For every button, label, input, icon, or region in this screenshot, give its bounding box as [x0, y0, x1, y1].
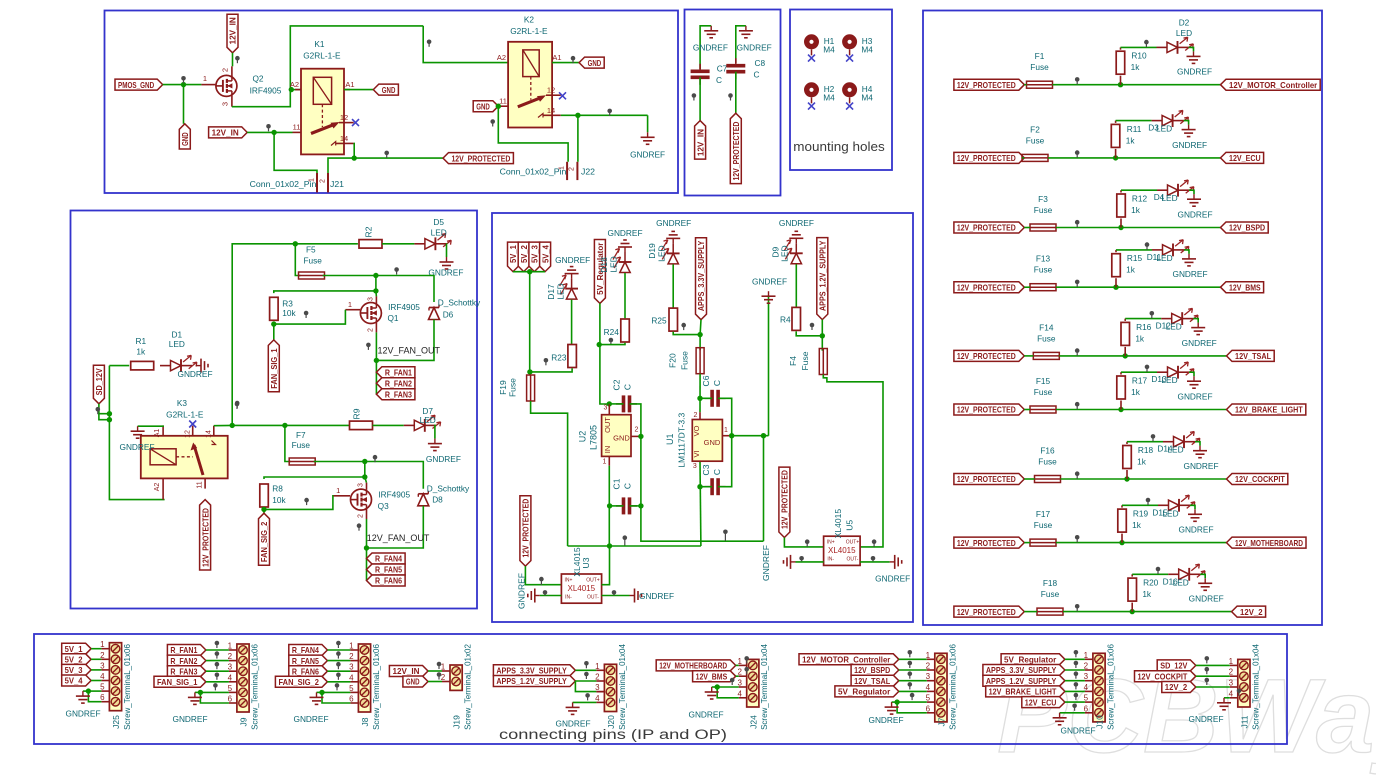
svg-text:OUT-: OUT-: [587, 595, 599, 601]
label 12V_MOTOR_Controller: [1221, 79, 1321, 90]
svg-text:C: C: [623, 384, 633, 390]
wire J25 pin4: [91, 680, 101, 682]
wire APPS33 to F20: [699, 320, 702, 351]
svg-text:Screw_TerminaL_01x06: Screw_TerminaL_01x06: [948, 644, 957, 730]
label 12V_PROTECTED K3: [200, 500, 211, 570]
wire R19 top to LED: [1122, 504, 1158, 506]
wire D5 to gnd: [445, 244, 447, 257]
svg-text:APPS_3.3V_SUPPLY: APPS_3.3V_SUPPLY: [496, 666, 567, 676]
gray marker J24 pin2: [744, 667, 749, 674]
wire D4 to ground: [1189, 190, 1194, 194]
svg-text:5: 5: [926, 694, 931, 703]
wire F1 to output: [1053, 84, 1221, 86]
fuse F17: [1030, 509, 1056, 546]
svg-text:3: 3: [368, 297, 375, 301]
svg-text:SD_12V: SD_12V: [1160, 661, 1187, 671]
wire R8 top rail: [264, 477, 367, 483]
gray marker R23: [544, 358, 549, 365]
svg-text:1: 1: [1229, 657, 1234, 666]
svg-text:C2: C2: [612, 379, 622, 390]
ground GNDREF U3 right: [630, 589, 675, 603]
wire U2 pin1 down: [608, 466, 610, 546]
svg-text:5: 5: [349, 684, 354, 693]
text GNDREF J11: [1188, 714, 1223, 724]
wire F7 drop: [285, 425, 291, 461]
resistor R17 1k: [1117, 372, 1148, 409]
ground GNDREF D5: [428, 257, 463, 277]
wire D13 to ground: [1189, 372, 1194, 376]
pin 1 J24: [737, 657, 746, 666]
svg-text:APPS_1.2V_SUPPLY: APPS_1.2V_SUPPLY: [986, 676, 1057, 686]
svg-text:GNDREF: GNDREF: [1188, 714, 1223, 724]
svg-text:12: 12: [185, 430, 192, 438]
gray marker F18 top: [1156, 567, 1161, 574]
gray marker J7 pin1: [908, 650, 913, 657]
svg-text:12V_IN: 12V_IN: [228, 17, 238, 44]
wire F16 left: [1024, 478, 1034, 480]
svg-text:4: 4: [595, 694, 600, 703]
svg-text:1: 1: [100, 640, 105, 649]
label 12V_PROTECTED row F1: [954, 79, 1024, 90]
junction R12: [1118, 225, 1123, 230]
gray marker F1 wire: [1075, 77, 1080, 84]
fuse F1: [1027, 51, 1053, 88]
svg-text:APPS_1.2V_SUPPLY: APPS_1.2V_SUPPLY: [496, 676, 567, 686]
wire F19 down: [531, 401, 568, 546]
svg-text:R15: R15: [1127, 253, 1143, 263]
svg-text:2: 2: [349, 652, 354, 661]
gray marker U3 inminus: [543, 590, 548, 595]
gray marker F3 wire: [1075, 220, 1080, 227]
gray marker F16 top: [1151, 434, 1156, 441]
gray marker J24 pin1: [744, 656, 749, 663]
label 12V_PROTECTED row F18: [954, 606, 1024, 617]
text GNDREF J7: [868, 715, 903, 725]
svg-text:IN-: IN-: [827, 557, 834, 563]
wire C7 bottom: [699, 77, 701, 120]
label 12V_COCKPIT: [1227, 474, 1288, 485]
svg-text:R_FAN3: R_FAN3: [385, 389, 412, 399]
svg-text:Fuse: Fuse: [1034, 387, 1053, 397]
svg-text:12: 12: [340, 113, 348, 122]
resistor R15 1k: [1112, 250, 1143, 287]
label 12V_PROTECTED U5: [779, 467, 790, 537]
svg-text:L7805: L7805: [589, 425, 599, 450]
svg-text:2: 2: [320, 179, 327, 183]
wire K3 A1 to gnd: [138, 424, 164, 427]
svg-text:GNDREF: GNDREF: [1183, 461, 1218, 471]
svg-text:12V_PROTECTED: 12V_PROTECTED: [780, 470, 790, 529]
label 5V_Regulator: [594, 240, 605, 304]
gray marker U3 in: [539, 577, 544, 585]
svg-text:12V_PROTECTED: 12V_PROTECTED: [957, 80, 1016, 90]
svg-text:12V_BMS: 12V_BMS: [696, 671, 728, 681]
svg-text:LED: LED: [609, 256, 619, 273]
wire F16 to output: [1061, 478, 1227, 480]
pin 2 J7: [926, 662, 935, 671]
wire to GND label: [183, 85, 185, 124]
svg-text:G2RL-1-E: G2RL-1-E: [303, 51, 341, 61]
svg-text:GNDREF: GNDREF: [693, 43, 728, 53]
LED D11: [1147, 240, 1189, 263]
wire R25 bottom: [673, 332, 700, 335]
svg-text:5: 5: [1084, 694, 1089, 703]
gray marker J10 pin3: [1074, 671, 1079, 678]
wire F17 left: [1024, 542, 1030, 544]
wire J8 pin3: [327, 670, 350, 672]
svg-text:D8: D8: [432, 495, 443, 505]
label 12V_IN box B: [695, 121, 706, 160]
svg-text:A2: A2: [154, 483, 161, 492]
svg-text:1k: 1k: [1126, 265, 1136, 275]
LED D12: [1156, 308, 1198, 331]
gray marker J10 pin5: [1074, 693, 1079, 700]
ground GNDREF F3 row: [1177, 194, 1212, 219]
wire F20 down to U1: [699, 374, 701, 413]
LED D7: [404, 406, 441, 432]
label 12V_PROTECTED box A: [443, 153, 513, 164]
transistor Q1 IRF4905: [345, 296, 420, 332]
svg-text:1: 1: [348, 300, 352, 309]
svg-text:R19: R19: [1133, 509, 1149, 519]
junction J8 gnd: [319, 690, 324, 695]
pin 3 J10: [1084, 672, 1093, 681]
fuse F5: [299, 244, 325, 279]
svg-text:Fuse: Fuse: [1038, 457, 1057, 467]
label FAN_SIG_1 at J9: [154, 676, 206, 687]
svg-text:Screw_TerminaL_01x06: Screw_TerminaL_01x06: [250, 644, 259, 730]
label SD_12V: [93, 365, 104, 404]
wire to FAN_SIG_1: [273, 324, 275, 340]
label 12V_BRAKE_LIGHT: [1227, 404, 1306, 415]
wire R3 top rail: [274, 291, 377, 297]
ground GNDREF J7: [885, 702, 899, 714]
gray marker PMOS_GND: [181, 76, 186, 83]
svg-text:LED: LED: [556, 283, 566, 300]
label R_FAN2 at J9: [167, 655, 206, 666]
wire K2 pin14 right: [561, 114, 648, 116]
text ref J24: [748, 644, 769, 730]
resistor R1 1k: [131, 336, 154, 370]
wire J11 gnd first: [1224, 697, 1230, 699]
label 12V_PROTECTED row F15: [954, 404, 1024, 415]
svg-text:3: 3: [1229, 679, 1234, 688]
converter U5 XL4015: [824, 509, 861, 566]
svg-text:2: 2: [1084, 662, 1089, 671]
wire gnd symbol up: [768, 297, 770, 436]
wire J11 pin3: [1196, 686, 1230, 688]
label R_FAN3 at J9: [167, 666, 206, 677]
gray marker R8: [304, 498, 309, 505]
label R_FAN4 at J8: [289, 645, 328, 656]
resistor R4: [780, 307, 801, 330]
svg-text:12V_2: 12V_2: [1165, 682, 1188, 692]
svg-text:F20: F20: [667, 353, 677, 368]
wire F14 left: [1024, 355, 1033, 357]
svg-text:A1: A1: [552, 53, 561, 62]
wire R24 bottom: [599, 343, 625, 345]
svg-text:D_Schottky: D_Schottky: [438, 298, 481, 308]
relay K3 G2RL-1-E: [141, 398, 228, 500]
svg-text:OUT+: OUT+: [586, 578, 600, 584]
svg-text:C1: C1: [612, 478, 622, 489]
svg-text:GNDREF: GNDREF: [1177, 67, 1212, 77]
label 12V_PROTECTED row F2: [954, 152, 1024, 163]
ground GNDREF D7: [426, 439, 461, 464]
svg-text:IRF4905: IRF4905: [250, 86, 282, 96]
connector J25 screw terminal strip: [109, 643, 121, 711]
pin 1 Q2: [201, 74, 215, 85]
svg-text:1: 1: [724, 427, 728, 434]
svg-text:5V_1: 5V_1: [508, 245, 518, 263]
LED D1: [160, 329, 197, 372]
svg-text:Fuse: Fuse: [1034, 265, 1053, 275]
wire R16 top to LED: [1125, 318, 1161, 320]
wire J8 pin4: [327, 681, 350, 683]
wire pin14 to ground: [647, 115, 649, 132]
svg-text:1: 1: [203, 74, 207, 83]
label 12V_IN top: [227, 14, 238, 53]
border box E (fan drivers section): [71, 211, 478, 609]
wire C1 right: [630, 505, 641, 507]
transistor Q3 IRF4905: [334, 483, 411, 519]
capacitor C3: [701, 464, 726, 495]
svg-text:GNDREF: GNDREF: [761, 545, 771, 581]
svg-text:LED: LED: [1176, 28, 1192, 38]
svg-text:12V_BSPD: 12V_BSPD: [854, 665, 890, 675]
gray marker J7 pin4: [908, 682, 913, 689]
junction U1 pin1 caps: [729, 433, 734, 438]
label APPS_1.2V_SUPPLY: [817, 238, 828, 320]
LED D15: [1152, 495, 1194, 518]
svg-text:3: 3: [926, 672, 931, 681]
watermark: [997, 658, 1376, 775]
svg-text:5V_2: 5V_2: [519, 245, 529, 263]
gray marker F5 node: [394, 267, 399, 274]
svg-text:1: 1: [737, 657, 742, 666]
svg-text:Screw_TerminaL_01x06: Screw_TerminaL_01x06: [372, 644, 381, 730]
gray marker F16 wire: [1075, 471, 1080, 478]
gray marker J10 pin4: [1074, 682, 1079, 689]
resistor R20 1k: [1128, 574, 1159, 611]
text GNDREF J8: [293, 714, 328, 724]
wire K1 A1 to GND: [344, 89, 373, 91]
wire junction down to F5: [295, 244, 300, 276]
LED D3: [1148, 110, 1188, 133]
svg-text:SD_12V: SD_12V: [94, 368, 104, 395]
ground GNDREF box A: [630, 132, 665, 159]
svg-text:R18: R18: [1138, 445, 1154, 455]
gray marker J11 pin2: [1205, 667, 1210, 674]
svg-text:D2: D2: [1179, 18, 1190, 28]
junction U1 pin1: [761, 433, 766, 438]
label R_FAN5: [367, 564, 406, 575]
gray marker J10 gnd: [1072, 704, 1077, 711]
svg-text:GND: GND: [704, 438, 721, 447]
svg-text:LED: LED: [780, 245, 790, 262]
svg-text:1k: 1k: [136, 347, 146, 357]
svg-text:J10: J10: [1095, 715, 1105, 729]
wire J25 pin2: [91, 658, 101, 660]
svg-text:J8: J8: [360, 717, 370, 726]
wire R9 to D7: [373, 424, 404, 426]
gray marker J11 pin1: [1205, 656, 1210, 663]
svg-text:1k: 1k: [1126, 135, 1136, 145]
wire U5 in- gnd: [796, 561, 824, 563]
label R_FAN2: [376, 378, 415, 389]
label 12V_MOTHERBOARD at J24: [656, 660, 736, 671]
gray marker F17 top: [1146, 498, 1151, 505]
label R_FAN6: [367, 575, 406, 586]
svg-text:J24: J24: [748, 715, 758, 729]
svg-text:5V_3: 5V_3: [530, 245, 540, 263]
svg-text:12V_COCKPIT: 12V_COCKPIT: [1235, 474, 1285, 484]
svg-text:2: 2: [1229, 668, 1234, 677]
gray marker J7 pin2: [908, 661, 913, 668]
svg-text:5V_4: 5V_4: [540, 245, 550, 263]
junction K2 pin11: [496, 104, 501, 109]
wire F15 left: [1024, 409, 1030, 411]
svg-text:Q1: Q1: [387, 313, 398, 323]
pin 1 J8: [349, 642, 358, 651]
svg-text:C8: C8: [754, 58, 765, 68]
LED D16: [1163, 564, 1205, 587]
diode D_Schottky D6: [429, 298, 482, 320]
pin 1 J11: [1229, 657, 1238, 666]
gray marker J7 pin3: [908, 671, 913, 678]
ground GNDREF F13 row: [1172, 254, 1207, 279]
svg-text:2: 2: [635, 427, 639, 434]
svg-text:2: 2: [569, 167, 576, 171]
svg-text:IRF4905: IRF4905: [388, 302, 420, 312]
wire J25 gnd first: [88, 690, 101, 692]
gray marker J9 pin3: [215, 662, 220, 669]
gray marker F14 wire: [1075, 348, 1080, 355]
pin 6 J9: [228, 695, 237, 704]
svg-text:C3: C3: [701, 464, 711, 475]
wire K1 pin14 down: [353, 143, 356, 158]
label 12V_IN at J19: [389, 666, 428, 677]
svg-text:12V_PROTECTED: 12V_PROTECTED: [451, 153, 510, 163]
gray marker J10 pin2: [1074, 661, 1079, 668]
gray marker C7: [692, 93, 697, 100]
svg-text:R_FAN3: R_FAN3: [170, 666, 197, 676]
svg-text:Fuse: Fuse: [1041, 589, 1060, 599]
wire pin1 gnd down: [763, 436, 765, 542]
svg-text:R1: R1: [135, 336, 146, 346]
pin 4 J8: [349, 673, 358, 682]
junction R23 bottom: [527, 369, 532, 374]
svg-text:Conn_01x02_Pin: Conn_01x02_Pin: [250, 179, 317, 189]
gray marker J19 pin2: [437, 672, 442, 679]
junction J9 gnd: [198, 690, 203, 695]
svg-text:1: 1: [1084, 651, 1089, 660]
wire U1 VI down: [699, 461, 702, 546]
svg-text:2: 2: [221, 68, 230, 72]
wire J10 pin2: [1065, 669, 1085, 671]
fuse F16: [1035, 446, 1061, 483]
pin 4 J10: [1084, 683, 1093, 692]
svg-text:6: 6: [349, 695, 354, 704]
text GNDREF J9: [172, 714, 207, 724]
label 12V_PROTECTED row F14: [954, 350, 1024, 361]
svg-text:C7: C7: [717, 64, 728, 74]
svg-text:C: C: [623, 483, 633, 489]
wire J7 pin1: [899, 658, 927, 660]
svg-text:OUT+: OUT+: [846, 540, 860, 546]
svg-text:1k: 1k: [1131, 62, 1141, 72]
svg-text:Fuse: Fuse: [292, 440, 311, 450]
pin 6 J7: [926, 704, 935, 713]
svg-text:LED: LED: [1166, 322, 1182, 332]
svg-text:R_FAN4: R_FAN4: [292, 645, 319, 655]
ground GNDREF F15 row: [1177, 376, 1212, 401]
svg-text:12V_COCKPIT: 12V_COCKPIT: [1138, 671, 1188, 681]
wire J10 pin1: [1065, 658, 1085, 660]
fuse F19 vertical: [498, 375, 534, 401]
junction K2 pin14: [575, 113, 580, 118]
label 5V_1 at J25: [62, 643, 91, 654]
resistor R11 1k: [1111, 121, 1141, 158]
svg-text:U3: U3: [581, 557, 591, 568]
label 12V_PROTECTED row F3: [954, 222, 1024, 233]
ground GNDREF C7: [693, 26, 728, 53]
svg-text:1k: 1k: [1137, 457, 1147, 467]
label 12V_PROTECTED U3: [520, 496, 531, 566]
wire Q2 source to K1 A2 net: [232, 26, 423, 107]
LED D2: [1157, 18, 1194, 54]
svg-text:J22: J22: [581, 167, 595, 177]
ground GNDREF J24: [705, 687, 719, 699]
gray marker F18 wire: [1075, 604, 1080, 611]
label R_FAN1 at J9: [167, 645, 206, 656]
svg-text:M4: M4: [823, 45, 835, 55]
label R_FAN5 at J8: [289, 655, 328, 666]
svg-text:GND: GND: [588, 58, 602, 68]
svg-text:APPS_3.3V_SUPPLY: APPS_3.3V_SUPPLY: [986, 665, 1057, 675]
ground GNDREF F2 row: [1172, 125, 1207, 150]
wire F1 left: [1024, 84, 1026, 86]
capacitor C2: [612, 379, 638, 412]
junction Q1 top: [373, 288, 378, 293]
label 5V_4 at J25: [62, 675, 91, 686]
ground GNDREF D19: [656, 218, 691, 253]
svg-text:6: 6: [926, 704, 931, 713]
pin 5 J10: [1084, 694, 1093, 703]
svg-text:M4: M4: [861, 45, 873, 55]
pin 1 J7: [926, 651, 935, 660]
svg-text:LED: LED: [1162, 508, 1178, 518]
svg-text:1: 1: [926, 651, 931, 660]
junction J24 gnd: [715, 684, 720, 689]
svg-text:R3: R3: [282, 298, 293, 308]
svg-text:GNDREF: GNDREF: [65, 709, 100, 719]
svg-text:OUT: OUT: [603, 417, 612, 433]
text ref J11: [1240, 644, 1261, 730]
svg-text:FAN_SIG_2: FAN_SIG_2: [279, 677, 320, 687]
svg-text:12V_ECU: 12V_ECU: [1025, 697, 1057, 707]
label 5V_Regulator at J10: [1001, 654, 1065, 665]
label 12V_2 at J11: [1162, 682, 1196, 693]
svg-text:J9: J9: [239, 717, 249, 726]
svg-text:Fuse: Fuse: [680, 351, 690, 370]
wire PMOS_GND to Q2 gate: [163, 84, 202, 86]
svg-text:IN: IN: [603, 446, 612, 454]
svg-text:IN+: IN+: [827, 540, 835, 546]
label R_FAN4: [367, 553, 406, 564]
wire U3 in- gnd: [540, 595, 562, 597]
svg-text:1: 1: [228, 642, 233, 651]
